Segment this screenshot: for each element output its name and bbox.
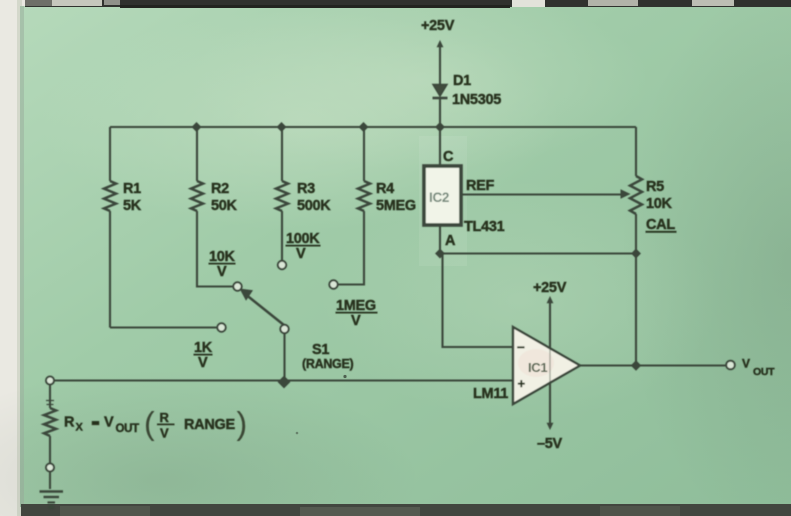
- svg-text:V: V: [104, 415, 114, 431]
- svg-text:1K: 1K: [194, 340, 213, 356]
- label 1MEG/V tap: [336, 298, 378, 329]
- svg-text:R4: R4: [376, 181, 394, 197]
- terminal 1MEG/V: [329, 280, 337, 288]
- op-amp U IC2 TL431 body: [424, 166, 461, 225]
- scan speck: [343, 375, 346, 378]
- label S1 RANGE: [302, 342, 354, 371]
- svg-text:): ): [237, 406, 247, 442]
- svg-text:5MEG: 5MEG: [376, 198, 416, 214]
- svg-text:IC1: IC1: [528, 360, 547, 375]
- terminal Rx top: [46, 377, 54, 385]
- label 100K/V tap: [286, 231, 321, 262]
- wire IC1 output to VOUT: [580, 364, 726, 366]
- svg-text:–: –: [517, 338, 525, 354]
- svg-text:+: +: [518, 376, 526, 391]
- label 1K/V tap: [194, 340, 213, 371]
- svg-text:R: R: [64, 415, 75, 431]
- wire R1 tap to 1K/V terminal: [110, 326, 217, 328]
- svg-text:V: V: [296, 246, 306, 262]
- switch S1 wiper arm: [240, 289, 285, 326]
- svg-text:C: C: [443, 149, 454, 165]
- resistor R2: [191, 127, 233, 287]
- diode D1: [433, 85, 448, 99]
- terminal 100K/V: [278, 261, 286, 269]
- resistor R4: [338, 127, 370, 285]
- label D1: [452, 73, 501, 108]
- terminal 1K/V: [217, 323, 225, 331]
- svg-text:S1: S1: [312, 342, 329, 358]
- svg-text:100K: 100K: [286, 231, 320, 247]
- label RX formula: [64, 406, 247, 442]
- wire top bus: [110, 126, 636, 128]
- svg-text:CAL: CAL: [646, 217, 675, 233]
- ground: [40, 492, 64, 510]
- svg-text:V: V: [351, 313, 361, 329]
- svg-text:A: A: [445, 233, 456, 249]
- label R1 value: [123, 181, 142, 214]
- svg-text:10K: 10K: [209, 249, 236, 265]
- wire node A to inverting input: [443, 254, 514, 348]
- scan speck: [296, 432, 299, 435]
- svg-text:5K: 5K: [123, 198, 142, 214]
- wire node A horizontal to R5 branch: [440, 252, 636, 254]
- svg-text:LM11: LM11: [473, 386, 508, 402]
- wire diode to bus to IC2 pin C: [439, 99, 441, 165]
- svg-text:OUT: OUT: [116, 423, 140, 435]
- node junction output-R5: [631, 360, 641, 370]
- svg-text:1MEG: 1MEG: [336, 298, 376, 314]
- power -5V wire at IC1: [547, 383, 554, 430]
- resistor R3: [276, 127, 288, 261]
- svg-text:RANGE: RANGE: [184, 417, 235, 433]
- svg-text:+25V: +25V: [533, 280, 567, 296]
- switch S1 wire pole to bus: [283, 333, 285, 381]
- svg-text:1N5305: 1N5305: [452, 92, 501, 108]
- node junction bus-R3: [277, 122, 287, 132]
- svg-text:OUT: OUT: [753, 366, 775, 378]
- switch S1 pole terminal: [280, 325, 288, 333]
- wire Rx to ground: [49, 472, 51, 490]
- label 10K/V tap: [209, 249, 236, 280]
- svg-text:–5V: –5V: [537, 436, 563, 452]
- svg-text:R3: R3: [297, 181, 315, 197]
- svg-text:R1: R1: [123, 181, 141, 197]
- svg-text:(: (: [144, 406, 155, 442]
- resistor RX: [44, 385, 56, 464]
- svg-text:V: V: [217, 264, 227, 280]
- power +25V wire at IC1: [547, 296, 554, 348]
- label R5 value: [646, 179, 677, 233]
- svg-text:R5: R5: [646, 179, 664, 195]
- node junction A: [435, 249, 445, 259]
- node junction bus-R4: [359, 122, 369, 132]
- terminal Rx bottom: [46, 464, 54, 472]
- op-amp IC1 LM11 body: [513, 327, 580, 404]
- svg-text:IC2: IC2: [429, 190, 449, 205]
- label R4 value: [376, 181, 416, 214]
- svg-text:TL431: TL431: [464, 219, 505, 235]
- svg-text:D1: D1: [453, 73, 471, 89]
- node junction bus-R2: [192, 122, 202, 132]
- svg-text:V: V: [198, 355, 208, 371]
- node junction A right: [631, 249, 641, 259]
- wire IC2 pin A down: [439, 225, 441, 254]
- svg-text:V: V: [160, 426, 169, 441]
- svg-text:(RANGE): (RANGE): [302, 357, 354, 371]
- svg-text:R2: R2: [211, 181, 229, 197]
- resistor R5 potentiometer: [630, 127, 642, 366]
- svg-text:+25V: +25V: [421, 18, 455, 34]
- node junction bus-D1: [435, 122, 445, 132]
- label R3 value: [297, 181, 331, 214]
- wire REF to R5 wiper: [462, 189, 631, 199]
- svg-text:REF: REF: [466, 178, 495, 194]
- terminal 10K/V: [233, 282, 241, 290]
- resistor R1: [104, 127, 116, 328]
- wire bottom bus to non-inverting input: [54, 379, 513, 381]
- svg-text:R: R: [160, 410, 170, 425]
- wire +25V supply to diode D1: [437, 40, 444, 84]
- svg-text:500K: 500K: [297, 198, 331, 214]
- label VOUT: [742, 357, 775, 379]
- terminal VOUT: [726, 361, 735, 370]
- svg-text:V: V: [742, 357, 750, 371]
- svg-text:50K: 50K: [211, 198, 238, 214]
- svg-text:X: X: [76, 422, 84, 434]
- svg-text:10K: 10K: [646, 196, 673, 212]
- node junction S1-bus: [278, 376, 291, 389]
- label R2 value: [211, 181, 238, 214]
